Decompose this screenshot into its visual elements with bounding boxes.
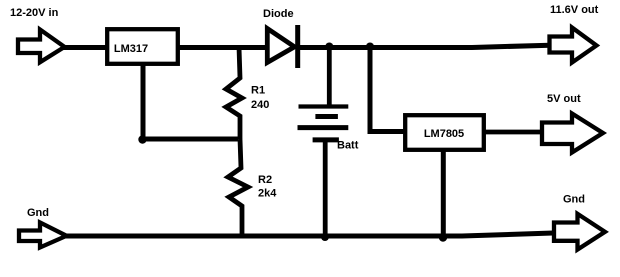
wire: input arrow to LM317 [62, 45, 107, 50]
svg-text:2k4: 2k4 [258, 188, 277, 200]
wire: battery - plate down to ground rail [323, 140, 328, 236]
svg-text:LM7805: LM7805 [424, 128, 464, 140]
wire: LM7805 ground pin down to ground rail [441, 150, 446, 237]
node: LM7805 ground junction [439, 233, 447, 241]
output terminal arrow (5V out) [542, 114, 603, 153]
node: battery top junction [325, 43, 333, 51]
node: LM7805 input junction on top rail [366, 43, 374, 51]
svg-text:LM317: LM317 [114, 43, 148, 55]
wire: LM7805 output to 5V out arrow [484, 130, 543, 135]
svg-text:R2: R2 [258, 174, 272, 186]
svg-text:Gnd: Gnd [27, 207, 49, 219]
svg-text:Batt: Batt [337, 140, 359, 152]
ground terminal arrow (right) [554, 214, 605, 250]
wire: top rail down to battery + plate [327, 47, 332, 106]
svg-text:Diode: Diode [263, 8, 294, 20]
battery Batt [298, 107, 349, 140]
output terminal arrow (11.6V out) [550, 28, 597, 63]
svg-text:11.6V out: 11.6V out [550, 4, 599, 16]
ground rail wire [64, 233, 553, 236]
diode D1 [267, 25, 297, 68]
node: battery ground junction [321, 233, 329, 241]
svg-text:5V out: 5V out [547, 93, 581, 105]
ground terminal arrow (left) [19, 223, 67, 248]
voltage regulator U2 LM7805 [405, 115, 484, 150]
resistor R1 240 [226, 47, 242, 139]
voltage regulator U1 LM317 [107, 29, 178, 64]
svg-text:R1: R1 [251, 85, 265, 97]
wire: diode cathode to 11.6V out arrow [298, 45, 550, 47]
svg-text:Gnd: Gnd [563, 194, 585, 206]
svg-text:12-20V in: 12-20V in [10, 7, 59, 19]
resistor R2 2k4 [228, 139, 248, 236]
svg-text:240: 240 [251, 99, 269, 111]
wire: LM317 output to diode anode [178, 45, 267, 50]
node: adj corner junction [138, 135, 146, 143]
input terminal arrow (12-20V in) [18, 30, 65, 63]
wire: LM317 adj pin down and right to R1/R2 junction [143, 64, 238, 139]
wire: top rail down and right to LM7805 input [370, 47, 404, 132]
